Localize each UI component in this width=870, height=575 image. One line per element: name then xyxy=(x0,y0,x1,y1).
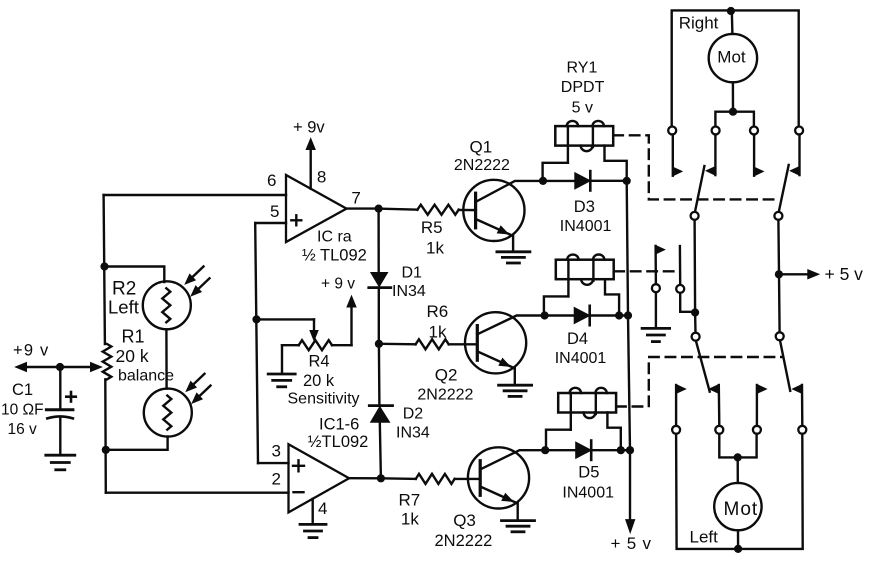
svg-text:Mot: Mot xyxy=(717,48,746,67)
svg-text:1k: 1k xyxy=(426,239,444,258)
svg-text:5: 5 xyxy=(270,202,279,221)
svg-text:10 ΩF: 10 ΩF xyxy=(1,401,44,418)
svg-text:D2: D2 xyxy=(403,405,424,422)
svg-text:2N2222: 2N2222 xyxy=(417,387,473,404)
svg-text:8: 8 xyxy=(317,167,326,186)
svg-text:4: 4 xyxy=(318,499,327,518)
svg-text:3: 3 xyxy=(272,441,281,460)
svg-text:+ 9 v: + 9 v xyxy=(321,276,355,293)
svg-text:R4: R4 xyxy=(309,353,330,371)
svg-text:2N2222: 2N2222 xyxy=(435,532,493,550)
svg-text:1k: 1k xyxy=(401,510,419,529)
svg-text:2: 2 xyxy=(272,469,281,488)
svg-text:RY1: RY1 xyxy=(567,59,598,76)
svg-text:+9 v: +9 v xyxy=(13,342,49,360)
svg-text:C1: C1 xyxy=(12,381,33,399)
svg-text:1k: 1k xyxy=(429,323,447,342)
svg-text:6: 6 xyxy=(267,171,276,190)
svg-text:IN4001: IN4001 xyxy=(560,218,612,235)
svg-text:D1: D1 xyxy=(402,265,423,282)
svg-text:Left: Left xyxy=(690,528,719,547)
svg-text:+ 5 v: + 5 v xyxy=(825,264,864,284)
svg-text:+ 9v: + 9v xyxy=(293,119,325,137)
svg-text:R6: R6 xyxy=(427,302,449,321)
svg-text:IC ra: IC ra xyxy=(317,228,352,245)
svg-text:IN34: IN34 xyxy=(392,283,426,300)
svg-text:2N2222: 2N2222 xyxy=(454,157,510,174)
svg-text:IN34: IN34 xyxy=(396,425,430,442)
svg-text:20 k: 20 k xyxy=(116,346,149,366)
svg-text:Q2: Q2 xyxy=(435,366,458,385)
svg-text:Mot: Mot xyxy=(724,499,759,520)
svg-text:balance: balance xyxy=(118,368,174,385)
svg-text:16 v: 16 v xyxy=(8,421,38,438)
svg-text:+ 5 v: + 5 v xyxy=(611,534,652,553)
svg-text:Q3: Q3 xyxy=(453,511,476,530)
svg-text:½TL092: ½TL092 xyxy=(308,433,369,451)
svg-text:D5: D5 xyxy=(578,463,599,481)
svg-text:IN4001: IN4001 xyxy=(555,350,607,367)
svg-text:R7: R7 xyxy=(399,490,421,509)
svg-text:Q1: Q1 xyxy=(470,138,493,157)
svg-text:R1: R1 xyxy=(122,326,145,346)
svg-text:D4: D4 xyxy=(567,330,588,348)
svg-text:½ TL092: ½ TL092 xyxy=(302,247,367,265)
svg-text:Left: Left xyxy=(108,297,139,318)
svg-text:DPDT: DPDT xyxy=(561,79,605,96)
svg-text:Sensitivity: Sensitivity xyxy=(288,391,360,408)
svg-text:Right: Right xyxy=(679,14,719,33)
svg-text:R5: R5 xyxy=(421,218,443,237)
svg-text:20 k: 20 k xyxy=(303,372,335,390)
svg-text:5 v: 5 v xyxy=(572,100,593,117)
svg-text:IC1-6: IC1-6 xyxy=(319,415,359,433)
svg-text:IN4001: IN4001 xyxy=(562,484,614,501)
svg-text:D3: D3 xyxy=(574,198,595,216)
svg-text:7: 7 xyxy=(351,188,360,207)
